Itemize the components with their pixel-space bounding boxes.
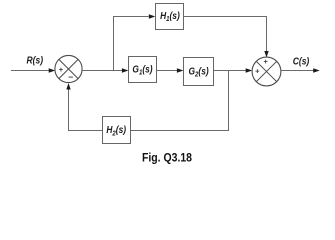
svg-text:+: + [264, 57, 269, 66]
svg-text:+: + [59, 65, 64, 74]
wire S1 to G1 with pickoff node [82, 68, 128, 72]
block G2 [184, 58, 214, 86]
summing junction S2 [252, 57, 281, 86]
block H2 [103, 117, 131, 144]
wire pickoff down to H2 [131, 71, 230, 131]
wire G2 to S2 with pickoff node [214, 68, 253, 72]
block H1 [156, 4, 184, 30]
wire pickoff up to H1 [113, 14, 155, 71]
node C(s) label [293, 56, 310, 67]
svg-text:R(s): R(s) [27, 55, 44, 66]
block G1 [129, 57, 157, 83]
svg-text:Fig. Q3.18: Fig. Q3.18 [142, 151, 192, 165]
wire G1 to G2 [157, 68, 184, 72]
node R(s) label [27, 55, 44, 66]
wire input R(s) [11, 68, 55, 72]
svg-text:−: − [68, 72, 73, 82]
wire output C(s) [281, 68, 320, 72]
wire H1 to S2 [184, 16, 269, 58]
summing junction S1 [55, 55, 82, 82]
wire H2 to S1 [66, 83, 102, 131]
svg-text:+: + [255, 66, 260, 75]
svg-text:C(s): C(s) [293, 56, 310, 67]
